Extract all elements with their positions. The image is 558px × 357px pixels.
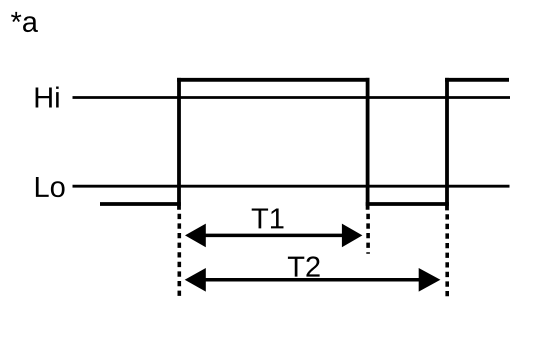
signal pulse top 1 [177, 78, 369, 82]
T1 arrow shaft [203, 234, 345, 238]
T1 arrowhead right [342, 224, 363, 248]
signal rising edge 1 [177, 78, 181, 210]
dashed marker line right [445, 214, 449, 298]
label Hi [36, 86, 59, 107]
label T2 [288, 256, 320, 276]
Lo reference line [73, 185, 510, 188]
T2 arrowhead left [185, 268, 206, 292]
label T1 [252, 208, 284, 228]
T1 arrowhead left [185, 224, 206, 248]
label Lo [36, 177, 65, 197]
dashed marker line middle [366, 214, 370, 254]
signal rising edge 2 [445, 78, 449, 211]
signal pulse top 2 [445, 78, 509, 82]
T2 arrow shaft [203, 278, 423, 282]
signal low segment 2 [366, 202, 449, 206]
note *a [11, 12, 38, 32]
dashed marker line left [178, 214, 182, 298]
Hi reference line [73, 96, 511, 99]
T2 arrowhead right [419, 268, 441, 292]
signal low segment 1 [100, 202, 181, 206]
signal falling edge [366, 78, 370, 210]
